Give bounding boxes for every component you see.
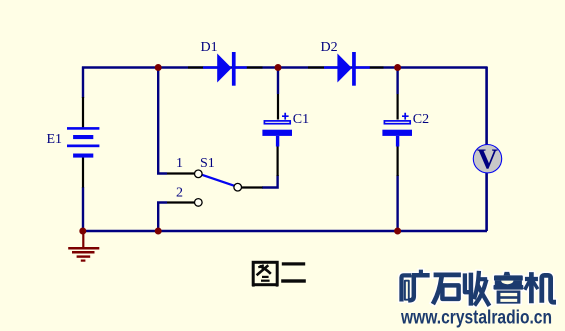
svg-text:2: 2 — [176, 185, 183, 200]
svg-text:C1: C1 — [293, 112, 309, 127]
svg-text:V: V — [477, 143, 498, 175]
wire left rail upper (battery branch) — [82, 67, 84, 99]
wire left rail lower (battery branch) — [82, 187, 84, 231]
node junction bottom C2 branch — [394, 228, 401, 235]
diode D2 — [324, 52, 370, 86]
switch S1 throw-2 terminal — [195, 199, 203, 207]
wire switch pole-2 branch to bottom bus — [158, 203, 167, 232]
pin D1 cathode — [247, 66, 263, 68]
node junction bottom switch branch — [155, 228, 162, 235]
node junction top C2 branch — [394, 64, 401, 71]
svg-text:1: 1 — [176, 156, 183, 171]
voltmeter V (meter circle) — [473, 143, 501, 175]
switch S1 arm — [202, 175, 235, 186]
node junction bottom ground tap — [79, 228, 86, 235]
pin D2 cathode — [370, 66, 384, 68]
battery E1 — [67, 127, 99, 158]
switch S1 throw-1 terminal — [195, 170, 203, 178]
svg-text:www.crystalradio.cn: www.crystalradio.cn — [400, 308, 552, 329]
svg-text:D2: D2 — [321, 40, 338, 55]
capacitor C1 — [262, 113, 292, 147]
pin C1 positive — [277, 94, 279, 120]
svg-text:C2: C2 — [413, 112, 429, 127]
pin C2 negative — [397, 146, 399, 176]
pin E1 negative — [82, 157, 84, 188]
node junction top C1 branch — [275, 64, 282, 71]
svg-text:E1: E1 — [47, 132, 63, 147]
caption 图二 (figure two) char 图 — [253, 262, 277, 286]
wire C2 top branch — [396, 67, 398, 94]
wire C2 bottom to bottom bus — [396, 175, 398, 231]
watermark logo char YIN — [494, 272, 524, 304]
pin E1 positive — [82, 97, 84, 128]
ground — [68, 231, 99, 261]
wire bottom bus — [82, 230, 487, 232]
svg-text:S1: S1 — [200, 156, 215, 171]
wire top bus from battery+ to right rail — [82, 66, 487, 68]
wire right rail (voltmeter branch) — [485, 67, 488, 232]
watermark logo halo — [402, 272, 554, 304]
svg-text:D1: D1 — [201, 40, 218, 55]
pin S1 common — [242, 186, 263, 188]
watermark logo char KUANG — [402, 272, 428, 301]
capacitor C2 — [382, 113, 412, 147]
pin C1 negative — [277, 146, 279, 176]
node junction top switch branch — [155, 64, 162, 71]
watermark logo char SHOU — [465, 273, 488, 304]
wire C1 top branch — [277, 67, 279, 94]
wire switch pole-1 branch from top bus — [158, 67, 167, 174]
wire C1 bottom to switch common — [262, 175, 279, 188]
switch S1 common terminal — [234, 183, 242, 191]
caption 图二 (figure two) char 二 — [281, 262, 306, 282]
watermark logo char YIN inner slots — [500, 293, 517, 302]
pin D1 anode — [188, 66, 204, 68]
pin S1 throw 1 — [167, 172, 194, 174]
pin D2 anode — [308, 66, 324, 68]
pin C2 positive — [397, 94, 399, 120]
diode D1 — [203, 52, 247, 86]
watermark logo char JI — [526, 275, 554, 303]
watermark logo char SHI — [434, 275, 459, 302]
pin S1 throw 2 — [167, 201, 194, 203]
